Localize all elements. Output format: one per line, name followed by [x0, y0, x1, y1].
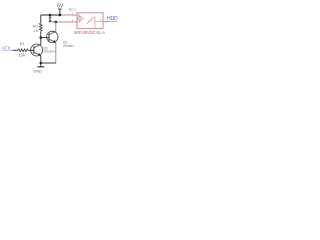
diode D1 flyback: [49, 15, 52, 22]
svg-text:2N3904: 2N3904: [63, 44, 74, 48]
junction dot 5V tap: [59, 14, 62, 17]
net label input (blue): [2, 45, 13, 51]
wire emitter bus to gnd node: [41, 62, 56, 64]
wire Q1 emitter down to gnd node: [40, 56, 42, 63]
svg-text:2N3904: 2N3904: [44, 50, 55, 54]
wire Q1 base: [29, 49, 34, 51]
transistor Q1 2N3904: [31, 44, 43, 56]
wire Q1 collector up to node: [40, 38, 42, 45]
svg-text:1K: 1K: [34, 28, 39, 33]
relay switch symbol: [87, 16, 103, 28]
pin relay common to HDD: [103, 21, 108, 23]
wire rail to R2 corner: [40, 15, 42, 23]
wire R2 bottom to node: [40, 31, 42, 37]
net label HDD (blue): [107, 16, 118, 22]
wire 5V drop: [59, 9, 61, 15]
svg-text:GND: GND: [33, 68, 42, 73]
junction dot Q2 collector: [55, 21, 58, 24]
junction dot at diode top: [49, 14, 52, 17]
relay coil symbol: [77, 15, 84, 22]
relay RLY1 body SRD-05VDC-SL-A: [77, 13, 103, 29]
wire Q2 emitter down: [55, 43, 57, 63]
svg-text:SRD-05VDC-SL-A: SRD-05VDC-SL-A: [74, 30, 106, 35]
junction dot gnd node: [40, 62, 43, 65]
ground symbol GND: [33, 63, 44, 73]
wire node to Q2 base: [41, 37, 49, 39]
pin 2 relay coil: [61, 14, 77, 16]
junction dot node Q1 collector / Q2 base: [40, 36, 43, 39]
wire rail 5V (net N$1): [41, 14, 61, 16]
svg-text:10K: 10K: [18, 52, 26, 57]
svg-text:R1: R1: [20, 41, 26, 46]
wire rail coil bottom (net N$2): [50, 21, 63, 23]
resistor R1: [18, 49, 29, 52]
transistor Q2 2N3904: [47, 22, 58, 43]
pin 5 relay coil: [63, 21, 78, 23]
supply 5V: [57, 4, 64, 10]
wire input to R1: [12, 49, 18, 51]
resistor R2: [39, 23, 42, 31]
